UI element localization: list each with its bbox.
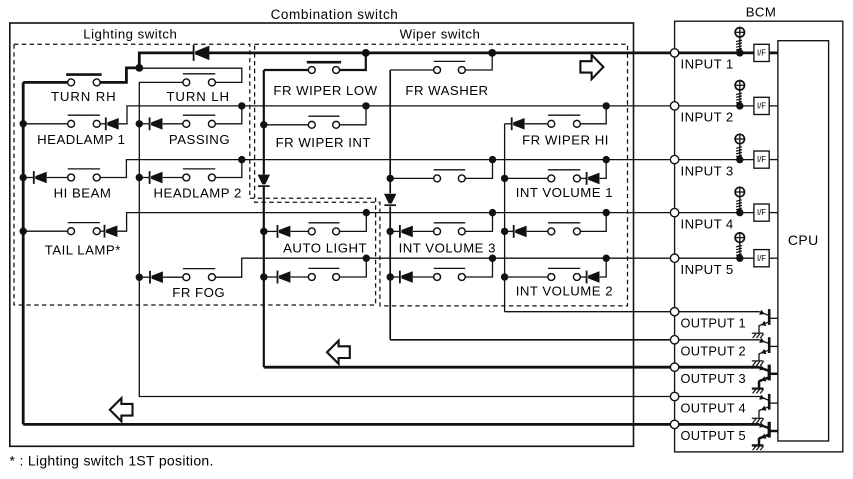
wire left bus to TAIL LAMP bbox=[23, 230, 67, 232]
diode down bus x263 bbox=[258, 175, 270, 187]
connector INPUT 5 bbox=[670, 254, 678, 262]
wire INPUT 2 line bbox=[119, 106, 671, 124]
wire lower auto right lead bbox=[340, 258, 367, 277]
transistor OUTPUT 4 driver with ground bbox=[752, 394, 778, 423]
wire OUTPUT 2 bus bbox=[390, 339, 670, 341]
svg-text:I/F: I/F bbox=[757, 208, 766, 217]
wire bus x263 upper bbox=[263, 70, 265, 175]
diode on INPUT 1 bus bbox=[194, 45, 210, 61]
wire INPUT 1 BCM side bbox=[679, 52, 754, 55]
switch TURN LH bbox=[183, 74, 215, 86]
wire OUTPUT 1 BCM side bbox=[679, 311, 759, 313]
lighting switch dashed box bbox=[14, 44, 376, 305]
svg-text:I/F: I/F bbox=[757, 102, 766, 111]
diode PASSING bbox=[150, 117, 163, 130]
svg-text:FR WIPER INT: FR WIPER INT bbox=[276, 135, 371, 150]
junction bus x139 row2 bbox=[136, 120, 143, 127]
diode down bus x390 bbox=[384, 194, 396, 206]
switch lower auto bbox=[308, 268, 339, 280]
junction bus x390 row VC bbox=[387, 273, 394, 280]
wire diode to lower auto switch bbox=[291, 276, 309, 278]
switch HI BEAM bbox=[68, 169, 101, 181]
wire INPUT 3 BCM side bbox=[679, 159, 754, 161]
wire TAIL LAMP to diode bbox=[100, 230, 104, 232]
svg-text:TURN LH: TURN LH bbox=[166, 89, 229, 104]
wire diode to INT VOLUME 3 bbox=[413, 230, 434, 232]
wire INPUT 3 line bbox=[100, 160, 670, 178]
wire OUTPUT 2 BCM side bbox=[679, 339, 759, 341]
wire INPUT 4 BCM side bbox=[679, 212, 754, 214]
pull-up and I/F INPUT 4 bbox=[735, 186, 778, 221]
wire INT VOLUME 1 right lead bbox=[600, 160, 607, 179]
wire to AUTO LIGHT diode bbox=[264, 230, 278, 232]
diode AUTO LIGHT bbox=[278, 225, 291, 238]
junction bus x504 row VB bbox=[501, 228, 508, 235]
junction bus x504 row VC bbox=[501, 273, 508, 280]
junction FR WIPER HI on INPUT 2 bbox=[603, 102, 610, 109]
wire INPUT 5 line bbox=[216, 258, 671, 277]
wire FR WASHER left lead bbox=[390, 69, 433, 71]
svg-text:* : Lighting switch 1ST positi: * : Lighting switch 1ST position. bbox=[10, 452, 214, 468]
svg-text:INPUT 5: INPUT 5 bbox=[681, 262, 734, 277]
diode HEADLAMP 1 bbox=[106, 117, 119, 130]
junction FR WIPER INT on INPUT 2 bbox=[362, 102, 369, 109]
connector INPUT 3 bbox=[670, 155, 678, 163]
junction bus x390 row VA bbox=[387, 175, 394, 182]
switch TAIL LAMP bbox=[68, 223, 101, 235]
wire FR WIPER LOW right lead bbox=[340, 53, 366, 70]
wire bus x263 lower bbox=[263, 187, 265, 368]
wire row VA mid lead bbox=[390, 177, 433, 179]
switch INT VOLUME 2 bbox=[548, 268, 581, 280]
pull-up and I/F INPUT 1 bbox=[735, 27, 778, 62]
CPU box bbox=[778, 41, 829, 441]
wire HEADLAMP 2 right lead bbox=[216, 160, 242, 178]
switch AUTO LIGHT bbox=[308, 223, 339, 235]
junction bus x390 row VB bbox=[387, 228, 394, 235]
junction bus x139 row3 bbox=[136, 174, 143, 181]
wire INT VOLUME 1 lead bbox=[505, 177, 548, 179]
switch TURN RH bbox=[66, 75, 102, 86]
wire OUTPUT 4 BCM side bbox=[679, 396, 759, 398]
wire to lower mid diode bbox=[390, 276, 400, 278]
switch row VA mid bbox=[434, 170, 466, 182]
wire diode to lower mid pair bbox=[413, 276, 434, 278]
wire HEADLAMP 1 to diode bbox=[100, 123, 106, 125]
pull-up and I/F INPUT 5 bbox=[735, 232, 778, 267]
wire diode to HEADLAMP 2 bbox=[163, 177, 183, 179]
junction INT VOLUME 1 on INPUT 3 bbox=[603, 156, 610, 163]
svg-text:INPUT 2: INPUT 2 bbox=[681, 110, 734, 125]
pull-up and I/F INPUT 3 bbox=[735, 133, 778, 168]
wire INT VOLUME 3 right lead bbox=[465, 213, 492, 232]
svg-text:I/F: I/F bbox=[757, 254, 766, 263]
switch HEADLAMP 1 bbox=[68, 115, 101, 127]
switch lower mid pair bbox=[434, 268, 466, 280]
switch right VB pair bbox=[548, 223, 581, 235]
svg-text:Combination switch: Combination switch bbox=[271, 7, 399, 22]
connector OUTPUT 1 bbox=[670, 308, 678, 316]
svg-text:HEADLAMP 2: HEADLAMP 2 bbox=[154, 186, 242, 201]
wire FR WIPER INT left lead bbox=[264, 124, 309, 126]
junction left bus row4 bbox=[20, 228, 27, 235]
wire lower mid right lead bbox=[465, 258, 492, 277]
svg-text:INT VOLUME 3: INT VOLUME 3 bbox=[399, 240, 496, 255]
switch INT VOLUME 1 bbox=[548, 170, 581, 182]
wire row VA mid right lead bbox=[465, 160, 492, 179]
diode right VB pair bbox=[514, 225, 527, 238]
connector INPUT 2 bbox=[670, 102, 678, 110]
svg-text:INPUT 1: INPUT 1 bbox=[681, 57, 734, 72]
wiper switch dashed box bbox=[255, 44, 628, 306]
svg-text:I/F: I/F bbox=[757, 49, 766, 58]
transistor OUTPUT 3 driver with ground bbox=[752, 365, 778, 394]
svg-text:AUTO LIGHT: AUTO LIGHT bbox=[283, 240, 367, 255]
svg-text:CPU: CPU bbox=[788, 232, 819, 248]
svg-text:TAIL LAMP*: TAIL LAMP* bbox=[45, 242, 121, 257]
svg-text:FR WASHER: FR WASHER bbox=[405, 83, 488, 98]
connector INPUT 1 bbox=[670, 49, 678, 57]
junction PASSING on INPUT 2 bbox=[238, 102, 245, 109]
svg-text:Wiper switch: Wiper switch bbox=[400, 26, 481, 41]
junction HEADLAMP 2 on INPUT 3 bbox=[238, 156, 245, 163]
svg-text:OUTPUT 5: OUTPUT 5 bbox=[681, 428, 746, 443]
wire OUTPUT 3 BCM side bbox=[679, 366, 759, 369]
wire junction to HEADLAMP 2 diode bbox=[139, 177, 149, 179]
svg-text:FR WIPER LOW: FR WIPER LOW bbox=[273, 83, 377, 98]
wire TURN RH to INPUT1 bus bbox=[100, 53, 193, 83]
wire FR WIPER INT right lead bbox=[340, 106, 366, 125]
diode TAIL LAMP bbox=[105, 225, 118, 238]
wire junction to FR FOG diode bbox=[139, 276, 150, 278]
diode INT VOLUME 1 bbox=[587, 172, 600, 185]
connector OUTPUT 5 bbox=[670, 420, 678, 428]
wire bus x390 lower bbox=[389, 207, 391, 340]
wire diode to FR WIPER HI bbox=[525, 123, 548, 125]
svg-text:I/F: I/F bbox=[757, 155, 766, 164]
svg-text:Lighting switch: Lighting switch bbox=[83, 26, 177, 41]
svg-text:PASSING: PASSING bbox=[169, 132, 230, 147]
connector OUTPUT 2 bbox=[670, 336, 678, 344]
diode lower auto switch bbox=[278, 271, 291, 284]
wire INPUT 1 bus bbox=[208, 52, 670, 55]
wire INPUT 2 BCM side bbox=[679, 105, 754, 107]
junction left bus row3 bbox=[20, 174, 27, 181]
junction bus x504 row VA bbox=[501, 175, 508, 182]
wire left bus to HI BEAM diode bbox=[23, 177, 34, 179]
wire to INT VOLUME 3 diode bbox=[390, 230, 400, 232]
arrow left bottom bbox=[110, 398, 133, 421]
switch PASSING bbox=[183, 115, 215, 127]
wire bus x390 upper bbox=[389, 70, 391, 193]
wire PASSING right lead bbox=[216, 106, 242, 124]
svg-text:INT VOLUME 2: INT VOLUME 2 bbox=[516, 283, 613, 298]
diode FR FOG bbox=[150, 271, 163, 284]
svg-text:HI BEAM: HI BEAM bbox=[54, 186, 112, 201]
wire INPUT 5 BCM side bbox=[679, 257, 754, 259]
svg-text:BCM: BCM bbox=[746, 5, 777, 20]
switch FR FOG bbox=[183, 269, 215, 281]
wire TURN LH right lead to junction bbox=[142, 68, 242, 82]
wire FR WASHER right lead bbox=[465, 53, 492, 70]
svg-text:FR WIPER HI: FR WIPER HI bbox=[522, 133, 609, 148]
junction bus x139 FR FOG bbox=[136, 274, 143, 281]
wire bus to FR WIPER HI diode bbox=[505, 123, 512, 125]
svg-text:OUTPUT 2: OUTPUT 2 bbox=[681, 344, 746, 359]
diode INT VOLUME 2 bbox=[587, 271, 600, 284]
junction bus x263 row VC bbox=[260, 273, 267, 280]
wire HEADLAMP 1 left lead bbox=[23, 123, 67, 125]
wire INT VOLUME 2 right lead bbox=[600, 258, 607, 277]
svg-text:FR FOG: FR FOG bbox=[172, 285, 225, 300]
junction INT VOLUME 2 on INPUT 5 bbox=[603, 255, 610, 262]
junction row VA mid on INPUT 3 bbox=[489, 156, 496, 163]
junction AUTO LIGHT on INPUT 4 bbox=[363, 209, 370, 216]
junction bus x263 FR WIPER INT bbox=[260, 121, 267, 128]
connector INPUT 4 bbox=[670, 208, 678, 216]
wire INT VOLUME 2 to diode bbox=[581, 276, 587, 278]
transistor OUTPUT 2 driver with ground bbox=[752, 337, 778, 366]
wire TURN LH lead + bus x139 to OUTPUT 4 bbox=[139, 82, 670, 396]
arrow right on INPUT 1 bbox=[580, 55, 603, 79]
transistor OUTPUT 1 driver with ground bbox=[752, 309, 778, 338]
wire to lower auto switch diode bbox=[264, 276, 278, 278]
diode HI BEAM bbox=[34, 171, 47, 184]
pull-up and I/F INPUT 2 bbox=[735, 80, 778, 115]
transistor OUTPUT 5 driver with ground bbox=[752, 422, 778, 450]
wire TURN RH left lead bbox=[23, 81, 67, 84]
switch FR WIPER HI bbox=[548, 115, 581, 127]
combination switch box bbox=[10, 23, 634, 446]
wire OUTPUT 5 bus bottom bbox=[23, 423, 670, 426]
connector OUTPUT 4 bbox=[670, 392, 678, 400]
junction lower auto on INPUT 5 bbox=[363, 255, 370, 262]
diode HEADLAMP 2 bbox=[150, 171, 163, 184]
wire bold left bus x23 bbox=[22, 82, 25, 424]
switch HEADLAMP 2 bbox=[183, 169, 215, 181]
svg-text:INPUT 4: INPUT 4 bbox=[681, 216, 734, 231]
wire diode to AUTO LIGHT bbox=[291, 230, 309, 232]
junction left bus row2 bbox=[20, 120, 27, 127]
svg-text:OUTPUT 1: OUTPUT 1 bbox=[681, 316, 746, 331]
wire AUTO LIGHT right lead bbox=[340, 213, 367, 232]
switch FR WASHER bbox=[434, 61, 466, 73]
wire diode to right VB pair bbox=[527, 230, 548, 232]
wire OUTPUT 3 bus bbox=[264, 366, 671, 369]
wire INT VOLUME 1 to diode bbox=[581, 177, 587, 179]
junction lower mid on INPUT 5 bbox=[489, 255, 496, 262]
BCM box bbox=[675, 21, 843, 452]
wire INT VOLUME 2 lead bbox=[505, 276, 548, 278]
wire junction to PASSING diode bbox=[139, 123, 149, 125]
arrow left mid bbox=[327, 341, 350, 364]
wire diode to FR FOG bbox=[163, 276, 183, 278]
wire diode to HI BEAM bbox=[47, 177, 68, 179]
wire bus x504 bbox=[504, 124, 506, 312]
switch FR WIPER INT bbox=[308, 116, 339, 128]
wire right VB right lead bbox=[581, 213, 607, 232]
svg-text:INPUT 3: INPUT 3 bbox=[681, 163, 734, 178]
junction FR WIPER LOW on INPUT 1 bbox=[362, 49, 370, 57]
wire OUTPUT 5 BCM side bbox=[679, 423, 759, 426]
svg-text:OUTPUT 4: OUTPUT 4 bbox=[681, 400, 746, 415]
wire diode to PASSING bbox=[163, 123, 183, 125]
wire OUTPUT 1 bus bbox=[505, 311, 671, 313]
switch INT VOLUME 3 bbox=[434, 223, 466, 235]
wire FR WIPER HI right lead bbox=[581, 106, 607, 124]
junction bus x263 AUTO LIGHT bbox=[260, 228, 267, 235]
wire INPUT 4 line bbox=[118, 213, 671, 232]
junction right VB on INPUT 4 bbox=[603, 209, 610, 216]
wire FR WIPER LOW left lead bbox=[264, 69, 309, 71]
junction TURN paths bbox=[135, 64, 143, 72]
diode FR WIPER HI bbox=[512, 117, 525, 130]
diode INT VOLUME 3 bbox=[400, 225, 413, 238]
svg-text:INT VOLUME 1: INT VOLUME 1 bbox=[516, 185, 613, 200]
diode lower mid pair bbox=[400, 271, 413, 284]
junction FR WASHER on INPUT 1 bbox=[488, 49, 496, 57]
connector OUTPUT 3 bbox=[670, 363, 678, 371]
svg-text:HEADLAMP 1: HEADLAMP 1 bbox=[37, 132, 125, 147]
junction INT VOLUME 3 on INPUT 4 bbox=[489, 209, 496, 216]
svg-text:OUTPUT 3: OUTPUT 3 bbox=[681, 371, 746, 386]
svg-text:TURN RH: TURN RH bbox=[51, 89, 117, 104]
switch FR WIPER LOW bbox=[307, 62, 341, 73]
wire to right VB diode bbox=[505, 230, 514, 232]
